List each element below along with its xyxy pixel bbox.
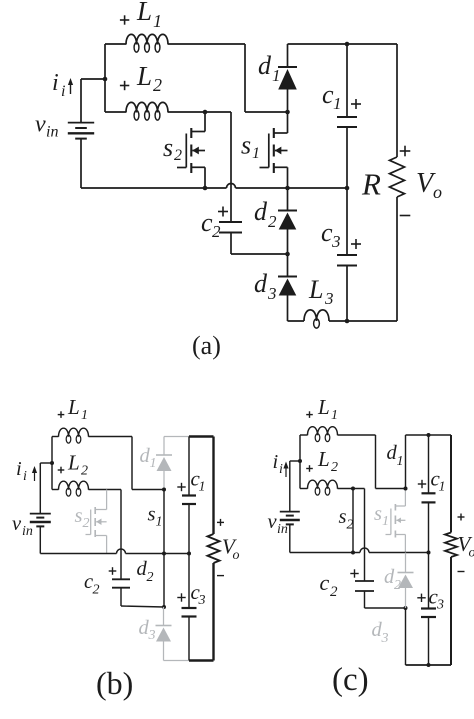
svg-text:2: 2 (394, 578, 401, 593)
wire - (a) d3 anode lead (287, 296, 289, 322)
wire - (b) output rail top (212, 437, 214, 535)
svg-text:2: 2 (331, 460, 338, 475)
wire - (a) bottom wire left (288, 320, 305, 322)
label + c1 (c) (418, 467, 446, 495)
diode d2 (a) (278, 211, 297, 230)
wire - (b) c1 bottom lead (188, 504, 190, 554)
node - (a) s1 source / d2 cathode junction (285, 186, 290, 191)
svg-text:2: 2 (268, 212, 277, 231)
label + L2 (b) (58, 451, 88, 479)
node - (a) c3 bottom junction (345, 319, 350, 324)
svg-text:1: 1 (382, 514, 389, 529)
wire - (a) battery top lead to node (81, 78, 105, 80)
diode d3 (b, off, gray) (156, 626, 172, 642)
svg-text:i: i (279, 462, 283, 477)
label d3 (c, gray) (372, 619, 389, 646)
label + c3 (b) (177, 580, 205, 608)
svg-text:1: 1 (81, 408, 88, 423)
svg-text:s: s (241, 131, 251, 160)
transistor s1 (a) (260, 128, 288, 173)
label s2 (b, gray) (75, 505, 90, 531)
label i_i (c) (273, 451, 284, 477)
capacitor c2 (b) (112, 579, 130, 587)
svg-text:L: L (317, 395, 330, 419)
battery v_in (a) bottom lead (80, 139, 82, 188)
wire - (a) top rail (288, 43, 398, 45)
svg-text:s: s (148, 504, 156, 526)
svg-text:1: 1 (153, 11, 162, 31)
wire - (a) d2 cathode lead (287, 188, 289, 211)
svg-text:i: i (16, 458, 22, 480)
node - (b) input junction (50, 461, 54, 465)
wire - (b) L2 right lead (89, 489, 122, 491)
battery v_in (c) top lead (289, 461, 291, 512)
wire - (c) s1 source lead (gray) (404, 535, 406, 553)
diode d1 (a) (278, 67, 297, 90)
node - (a) input junction (103, 77, 108, 82)
svg-text:1: 1 (252, 145, 260, 162)
wire - (a) s1 source lead (287, 167, 289, 188)
svg-text:s: s (339, 506, 347, 528)
wire - (b) rail hop over c2 feed (117, 549, 126, 554)
wire - (c) battery top lead to node (290, 460, 300, 462)
transistor s2 (a) (177, 128, 205, 173)
wire - (b) L1 drop to s1 node (132, 437, 164, 490)
wire - (c) top rail (406, 434, 452, 436)
svg-text:s: s (163, 133, 173, 162)
capacitor c3 (c) (421, 609, 436, 618)
wire - (c) L2 left lead (300, 488, 308, 490)
wire - (b) c2 bottom lead (121, 588, 164, 607)
svg-text:d: d (258, 51, 272, 80)
svg-text:3: 3 (267, 284, 277, 303)
svg-text:1: 1 (199, 480, 206, 495)
current arrow i_i (a) (68, 78, 73, 94)
svg-text:2: 2 (212, 222, 221, 241)
svg-text:1: 1 (331, 408, 338, 423)
svg-text:1: 1 (272, 66, 281, 85)
node - (a) c3 top junction (345, 186, 350, 191)
wire - (a) L2 right lead (168, 111, 231, 113)
switch s2 (c, on, wire) (352, 489, 354, 553)
battery v_in (a) (68, 123, 94, 139)
wire - (a) L1 right lead (168, 43, 245, 45)
wire - (a) common rail (81, 187, 347, 189)
current arrow i_i (c) (283, 462, 288, 478)
wire - (a) d2 anode lead (287, 230, 289, 255)
svg-text:d: d (254, 269, 268, 298)
label s1 (b) (148, 504, 163, 530)
svg-text:L: L (317, 447, 330, 471)
node - (c) c2 bottom junction (404, 606, 408, 610)
diode d3 (a) (278, 277, 297, 296)
node - (c) input junction (298, 459, 302, 463)
caption (a) (192, 331, 221, 360)
label v_in (c) (268, 511, 288, 537)
svg-text:L: L (67, 451, 80, 475)
wire - (b) bottom rail thick (189, 659, 214, 661)
wire - (c) c3 top lead (428, 553, 430, 609)
inductor L3 (a) (304, 310, 329, 328)
battery v_in (b) top lead (39, 463, 41, 514)
wire - (b) output rail bottom (212, 563, 214, 661)
label d2 (b) (137, 558, 154, 585)
label d3 (a) (254, 269, 277, 303)
wire - (a) L1 to d1 anode drop (245, 44, 288, 112)
label s1 (c, gray) (374, 503, 389, 529)
label d1 (a) (258, 51, 281, 85)
svg-text:s: s (75, 505, 83, 527)
node - (c) c3 bottom junction (427, 663, 431, 667)
label s1 (a) (241, 131, 260, 163)
battery v_in (b) (30, 514, 51, 527)
switch s1 (b, on, wire) (163, 490, 165, 554)
svg-text:v: v (268, 511, 278, 533)
wire - (a) output rail top (396, 44, 398, 157)
wire - (c) d2 anode lead (gray) (405, 588, 407, 608)
wire - (c) L2 right lead (338, 488, 365, 490)
node - (c) c1-c3 junction (427, 551, 431, 555)
resistor R (c) (445, 533, 457, 558)
capacitor c3 (a) (337, 255, 357, 266)
node - (c) s2 source junction (351, 551, 355, 555)
node - (a) c1 top junction (345, 42, 350, 47)
wire - (c) output rail bottom (450, 557, 452, 665)
label R (a) (361, 167, 381, 202)
wire - (b) c3 top lead (188, 554, 190, 609)
wire - (a) s2 source lead (204, 167, 206, 188)
wire - (c) bottom rail (406, 664, 452, 666)
wire - (a) input node vertical x=105 (104, 44, 106, 112)
label + L2 (c) (306, 447, 338, 475)
svg-text:3: 3 (198, 593, 206, 608)
label + c1 (b) (177, 467, 205, 495)
current arrow i_i (b) (32, 466, 37, 481)
svg-text:L: L (136, 61, 152, 91)
wire - (c) rail hop over c2 feed (360, 548, 369, 553)
svg-text:i: i (273, 451, 279, 473)
svg-text:i: i (23, 469, 27, 484)
inductor L2 (b) (59, 481, 89, 496)
wire - (a) L2 left lead (105, 111, 126, 113)
wire - (b) c3 bottom lead (188, 617, 190, 661)
label d2 (a) (254, 197, 277, 231)
svg-text:1: 1 (439, 480, 446, 495)
resistor R (b) (208, 534, 220, 563)
wire - (c) input node vertical (299, 435, 301, 489)
capacitor c1 (b) (182, 496, 196, 505)
svg-text:2: 2 (330, 584, 338, 600)
svg-text:1: 1 (333, 94, 342, 113)
svg-text:in: in (277, 522, 288, 537)
label + L1 (a) (120, 0, 162, 31)
battery v_in (c) (280, 512, 300, 525)
svg-text:2: 2 (153, 75, 162, 95)
label + L1 (b) (58, 395, 88, 423)
label s2 (c) (339, 506, 354, 533)
node - (b) c1-c3 junction (187, 552, 191, 556)
wire - (c) L1 drop to d1 node (376, 435, 406, 489)
transistor s2 (b, off, gray) (86, 507, 107, 537)
label + c3 (a) (321, 218, 361, 251)
diode d3 (c, on, wire) (405, 608, 407, 665)
inductor L2 (a) (126, 102, 168, 120)
diode d2 (c, off, gray) (398, 573, 414, 589)
label + L1 (c) (306, 395, 338, 423)
svg-text:(c): (c) (332, 662, 369, 698)
label d2 (c, gray) (384, 566, 401, 593)
wire - (b) L1 right lead (89, 436, 133, 438)
node - (b) s1 source junction (162, 552, 166, 556)
svg-text:v: v (12, 513, 22, 535)
capacitor c2 (a) (219, 222, 242, 233)
wire - (b) d3 anode lead (gray) (164, 642, 189, 661)
wire - (b) common rail (40, 553, 189, 555)
label + c2 (b) (84, 567, 116, 597)
capacitor c1 (a) (337, 117, 357, 127)
node - (a) s2 drain tap (203, 110, 208, 115)
wire - (b) c1 top corner (188, 437, 190, 496)
svg-text:in: in (22, 524, 33, 539)
wire - (a) d1 cathode lead (287, 44, 289, 67)
wire - (a) d3 cathode lead (287, 254, 289, 277)
diode d1 (c, on, wire) (405, 435, 407, 489)
node - (a) d1 anode junction (285, 110, 290, 115)
wire - (a) s2 drain lead (204, 112, 206, 132)
wire - (b) d1 cathode lead (gray) (164, 437, 189, 456)
wire - (a) s1 drain lead (287, 112, 289, 133)
node - (b) s1 drain junction (162, 488, 166, 492)
wire - (a) output rail bottom (396, 197, 398, 321)
svg-text:2: 2 (83, 516, 90, 531)
svg-text:in: in (46, 124, 58, 141)
svg-text:1: 1 (397, 454, 404, 469)
node - (b) c2 bottom junction (162, 605, 166, 609)
wire - (c) d2 cathode lead (gray) (405, 553, 407, 573)
svg-text:(a): (a) (192, 331, 221, 360)
svg-text:2: 2 (147, 570, 154, 585)
label d1 (b, gray) (140, 445, 157, 471)
battery v_in (b) bottom lead (39, 526, 41, 553)
label + c2 (c) (320, 569, 359, 600)
inductor L1 (a) (126, 34, 168, 52)
svg-text:o: o (469, 546, 474, 561)
label + c3 (c) (417, 585, 444, 613)
svg-text:2: 2 (174, 147, 182, 164)
wire - (a) c1 top lead (346, 44, 348, 117)
svg-text:2: 2 (347, 518, 354, 533)
battery v_in (a) top lead (80, 79, 82, 123)
resistor R (a) (390, 157, 405, 197)
wire - (a) rail hop over c2 feed (227, 184, 236, 189)
wire - (a) bottom wire right (329, 320, 397, 322)
capacitor c3 (b) (182, 608, 197, 617)
svg-text:1: 1 (150, 456, 157, 471)
label + c2 (a) (201, 207, 228, 242)
inductor L2 (c) (308, 480, 338, 495)
svg-text:d: d (254, 197, 268, 226)
wire - (c) c1 bottom lead (428, 502, 430, 552)
svg-text:3: 3 (324, 289, 334, 308)
svg-text:3: 3 (148, 628, 156, 643)
wire - (c) L1 left lead (300, 434, 308, 436)
svg-text:v: v (35, 112, 46, 138)
svg-text:L: L (67, 395, 80, 419)
svg-text:R: R (361, 167, 381, 202)
wire - (a) L1 left lead (105, 43, 126, 45)
wire - (a) c2 bottom lead (231, 233, 288, 255)
caption (c) (332, 662, 369, 698)
wire - (c) c2 bottom lead (365, 591, 406, 608)
label + c1 (a) (322, 80, 361, 113)
label + L2 (a) (120, 61, 162, 95)
node - (c) d1 anode junction (404, 487, 408, 491)
inductor L1 (c) (308, 427, 338, 442)
svg-text:L: L (136, 0, 152, 26)
capacitor c1 (c) (422, 493, 436, 502)
label + Vo - (b) (217, 519, 240, 576)
diode d1 (b, off, gray) (156, 455, 172, 471)
node - (c) s2 drain tap (351, 487, 355, 491)
node - (a) s2 source junction (203, 186, 208, 191)
label d1 (c) (387, 442, 404, 469)
wire - (c) L1 right lead (338, 434, 376, 436)
svg-text:(b): (b) (96, 665, 133, 701)
node - (c) c1 top junction (427, 433, 431, 437)
battery v_in (c) bottom lead (289, 524, 291, 552)
wire - (b) battery top lead to node (40, 462, 52, 464)
svg-text:2: 2 (93, 583, 100, 598)
label d3 (b, gray) (139, 617, 156, 643)
wire - (c) c3 bottom lead (428, 617, 430, 665)
wire - (c) s1 drain lead (gray) (404, 489, 406, 507)
wire - (a) c3 top lead (346, 188, 348, 255)
svg-text:2: 2 (81, 464, 88, 479)
node - (a) d2-d3 junction (285, 252, 290, 257)
capacitor c2 (c) (355, 581, 374, 591)
label L3 (a) (308, 275, 334, 308)
label + Vo - (c) (458, 514, 474, 572)
wire - (b) input node vertical (51, 437, 53, 490)
label i_i (b) (16, 458, 27, 484)
wire - (c) output rail top (450, 435, 452, 533)
wire - (c) c1 top lead (428, 435, 430, 493)
svg-text:3: 3 (381, 631, 389, 646)
wire - (b) s2 source lead (gray) (106, 536, 108, 554)
diode d2 (b, on, wire) (163, 554, 165, 608)
inductor L1 (b) (59, 428, 89, 443)
svg-text:3: 3 (436, 598, 444, 613)
wire - (b) top rail thick (189, 435, 214, 437)
wire - (b) L1 left lead (52, 436, 59, 438)
transistor s1 (c, off, gray) (386, 504, 406, 538)
label s2 (a) (163, 133, 182, 164)
wire - (b) d3 cathode lead (gray) (163, 607, 165, 626)
wire - (c) common rail (290, 552, 429, 554)
label v_in (a) (35, 112, 58, 141)
svg-text:3: 3 (331, 232, 341, 251)
svg-text:o: o (433, 182, 442, 202)
label v_in (b) (12, 513, 33, 539)
wire - (a) c1 bottom lead (346, 127, 348, 188)
svg-text:L: L (308, 275, 323, 304)
svg-text:s: s (374, 503, 382, 525)
wire - (b) s2 drain lead (gray) (106, 490, 108, 510)
wire - (b) d1 anode lead (gray) (163, 471, 165, 490)
label + Vo - (a) (400, 146, 442, 216)
svg-text:i: i (61, 83, 65, 100)
wire - (b) c2 feed vertical (120, 490, 122, 580)
svg-text:1: 1 (156, 515, 163, 530)
label i_i (a) (52, 70, 65, 100)
wire - (a) c3 bottom lead (346, 266, 348, 322)
wire - (c) c2 feed vertical (364, 489, 366, 582)
caption (b) (96, 665, 133, 701)
svg-text:o: o (233, 548, 240, 563)
wire - (b) L2 left lead (52, 489, 59, 491)
svg-text:c: c (320, 570, 330, 595)
wire - (a) c2 feed vertical (230, 112, 232, 222)
wire - (a) d1 anode lead (287, 90, 289, 113)
svg-text:i: i (52, 70, 59, 96)
